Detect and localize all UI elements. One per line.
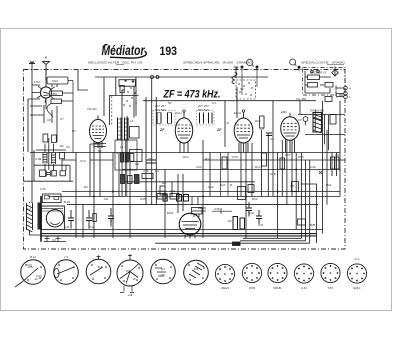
svg-text:C7: C7 xyxy=(60,117,64,121)
svg-text:UCH41: UCH41 xyxy=(87,107,97,111)
svg-text:C5: C5 xyxy=(260,127,264,131)
svg-text:R19: R19 xyxy=(298,155,304,159)
svg-text:450: 450 xyxy=(52,92,57,96)
svg-text:CH 455: CH 455 xyxy=(296,97,307,101)
svg-text:0.1: 0.1 xyxy=(212,101,217,105)
svg-text:OSZ: OSZ xyxy=(52,79,58,83)
svg-text:0.1: 0.1 xyxy=(155,169,160,173)
svg-text:WELLENSCHALTER OSC. PH. LW.: WELLENSCHALTER OSC. PH. LW. xyxy=(88,61,143,65)
svg-text:C27: C27 xyxy=(220,183,226,187)
svg-text:0.05: 0.05 xyxy=(140,197,146,201)
svg-text:7.4: 7.4 xyxy=(64,255,68,259)
svg-text:C28: C28 xyxy=(270,172,276,176)
svg-text:EBC: EBC xyxy=(281,110,288,114)
svg-text:17H: 17H xyxy=(34,80,40,84)
svg-text:B.21: B.21 xyxy=(64,200,71,204)
svg-text:45H21: 45H21 xyxy=(221,286,229,290)
svg-text:Médiator: Médiator xyxy=(102,42,146,58)
svg-text:10k: 10k xyxy=(126,269,131,273)
svg-text:15: 15 xyxy=(133,277,136,281)
svg-text:117: 117 xyxy=(161,267,166,271)
svg-text:C44: C44 xyxy=(40,187,46,191)
svg-text:4733: 4733 xyxy=(249,286,255,290)
svg-text:C24: C24 xyxy=(196,165,202,169)
svg-text:R17: R17 xyxy=(285,153,291,157)
svg-text:4x: 4x xyxy=(226,121,230,125)
svg-text:ZF: ZF xyxy=(216,128,222,132)
svg-text:C2: C2 xyxy=(52,238,56,242)
svg-text:R17: R17 xyxy=(228,219,234,223)
svg-text:(71): (71) xyxy=(161,273,166,277)
svg-text:C33: C33 xyxy=(310,165,316,169)
svg-text:609: 609 xyxy=(194,267,199,271)
svg-text:3.2B: 3.2B xyxy=(35,157,41,161)
svg-text:R7: R7 xyxy=(116,151,120,155)
svg-text:C30: C30 xyxy=(248,211,254,215)
svg-text:R1: R1 xyxy=(72,129,76,133)
svg-text:R8: R8 xyxy=(162,181,166,185)
svg-text:S2: S2 xyxy=(240,87,244,91)
svg-text:117: 117 xyxy=(98,265,103,269)
svg-text:C29: C29 xyxy=(208,185,214,189)
svg-text:ZF: ZF xyxy=(159,128,165,132)
svg-text:A-Z1: A-Z1 xyxy=(301,286,307,290)
svg-text:193: 193 xyxy=(160,44,178,58)
svg-text:C20: C20 xyxy=(158,189,164,193)
svg-text:16H: 16H xyxy=(120,173,126,177)
svg-text:+18: +18 xyxy=(128,293,133,297)
svg-text:17B: 17B xyxy=(28,265,33,269)
svg-text:Ci,s: Ci,s xyxy=(355,257,360,261)
svg-text:R11: R11 xyxy=(205,157,211,161)
svg-text:R10: R10 xyxy=(183,155,189,159)
svg-text:R30: R30 xyxy=(252,197,258,201)
svg-text:B.12: B.12 xyxy=(30,255,36,259)
svg-text:500 500: 500 500 xyxy=(198,108,209,112)
svg-text:BECKER 07: BECKER 07 xyxy=(310,71,327,75)
svg-text:L2: L2 xyxy=(130,119,134,123)
svg-text:C6: C6 xyxy=(270,137,274,141)
svg-text:SPRECHEN·SPRACHE · MUSIK · GRA: SPRECHEN·SPRACHE · MUSIK · GRAMMO xyxy=(183,61,253,65)
svg-text:7.5: 7.5 xyxy=(290,184,295,188)
svg-text:4.7k: 4.7k xyxy=(143,169,149,173)
svg-text:R4: R4 xyxy=(84,185,88,189)
svg-text:L4: L4 xyxy=(120,145,124,149)
svg-text:CP: CP xyxy=(298,118,302,122)
svg-text:C41: C41 xyxy=(64,225,70,229)
svg-text:25k: 25k xyxy=(148,157,153,161)
svg-text:1H: 1H xyxy=(27,207,31,211)
svg-text:HH: HH xyxy=(335,153,339,157)
svg-text:44: 44 xyxy=(35,277,38,281)
svg-text:1M: 1M xyxy=(104,197,109,201)
svg-text:C42: C42 xyxy=(89,225,95,229)
svg-text:R14: R14 xyxy=(255,165,261,169)
svg-text:500 500: 500 500 xyxy=(155,108,166,112)
svg-text:SPEZIALCONT.B · GRAMO: SPEZIALCONT.B · GRAMO xyxy=(301,61,346,65)
svg-text:EF41: EF41 xyxy=(234,111,242,115)
svg-text:636.81: 636.81 xyxy=(273,286,282,290)
svg-text:C21: C21 xyxy=(170,189,176,193)
svg-text:R2: R2 xyxy=(60,144,64,148)
svg-text:547 500 501: 547 500 501 xyxy=(310,109,325,113)
svg-text:C1: C1 xyxy=(110,219,114,223)
svg-text:UCH: UCH xyxy=(175,111,182,115)
svg-text:ZF = 473 kHz.: ZF = 473 kHz. xyxy=(163,89,221,101)
svg-text:679: 679 xyxy=(328,286,333,290)
svg-text:50: 50 xyxy=(168,101,172,105)
svg-text:C26: C26 xyxy=(232,155,238,159)
svg-text:C9: C9 xyxy=(66,145,70,149)
svg-text:C14: C14 xyxy=(80,159,86,163)
svg-text:50: 50 xyxy=(98,149,102,153)
svg-text:B25: B25 xyxy=(310,223,316,227)
svg-text:C8: C8 xyxy=(47,118,51,122)
svg-text:C31: C31 xyxy=(258,223,264,227)
svg-text:C45: C45 xyxy=(214,207,220,211)
svg-text:R12: R12 xyxy=(255,119,261,123)
svg-text:EM4: EM4 xyxy=(167,211,174,215)
svg-text:R21: R21 xyxy=(326,183,332,187)
svg-text:E36.1: E36.1 xyxy=(353,286,361,290)
svg-text:R9: R9 xyxy=(135,162,139,166)
